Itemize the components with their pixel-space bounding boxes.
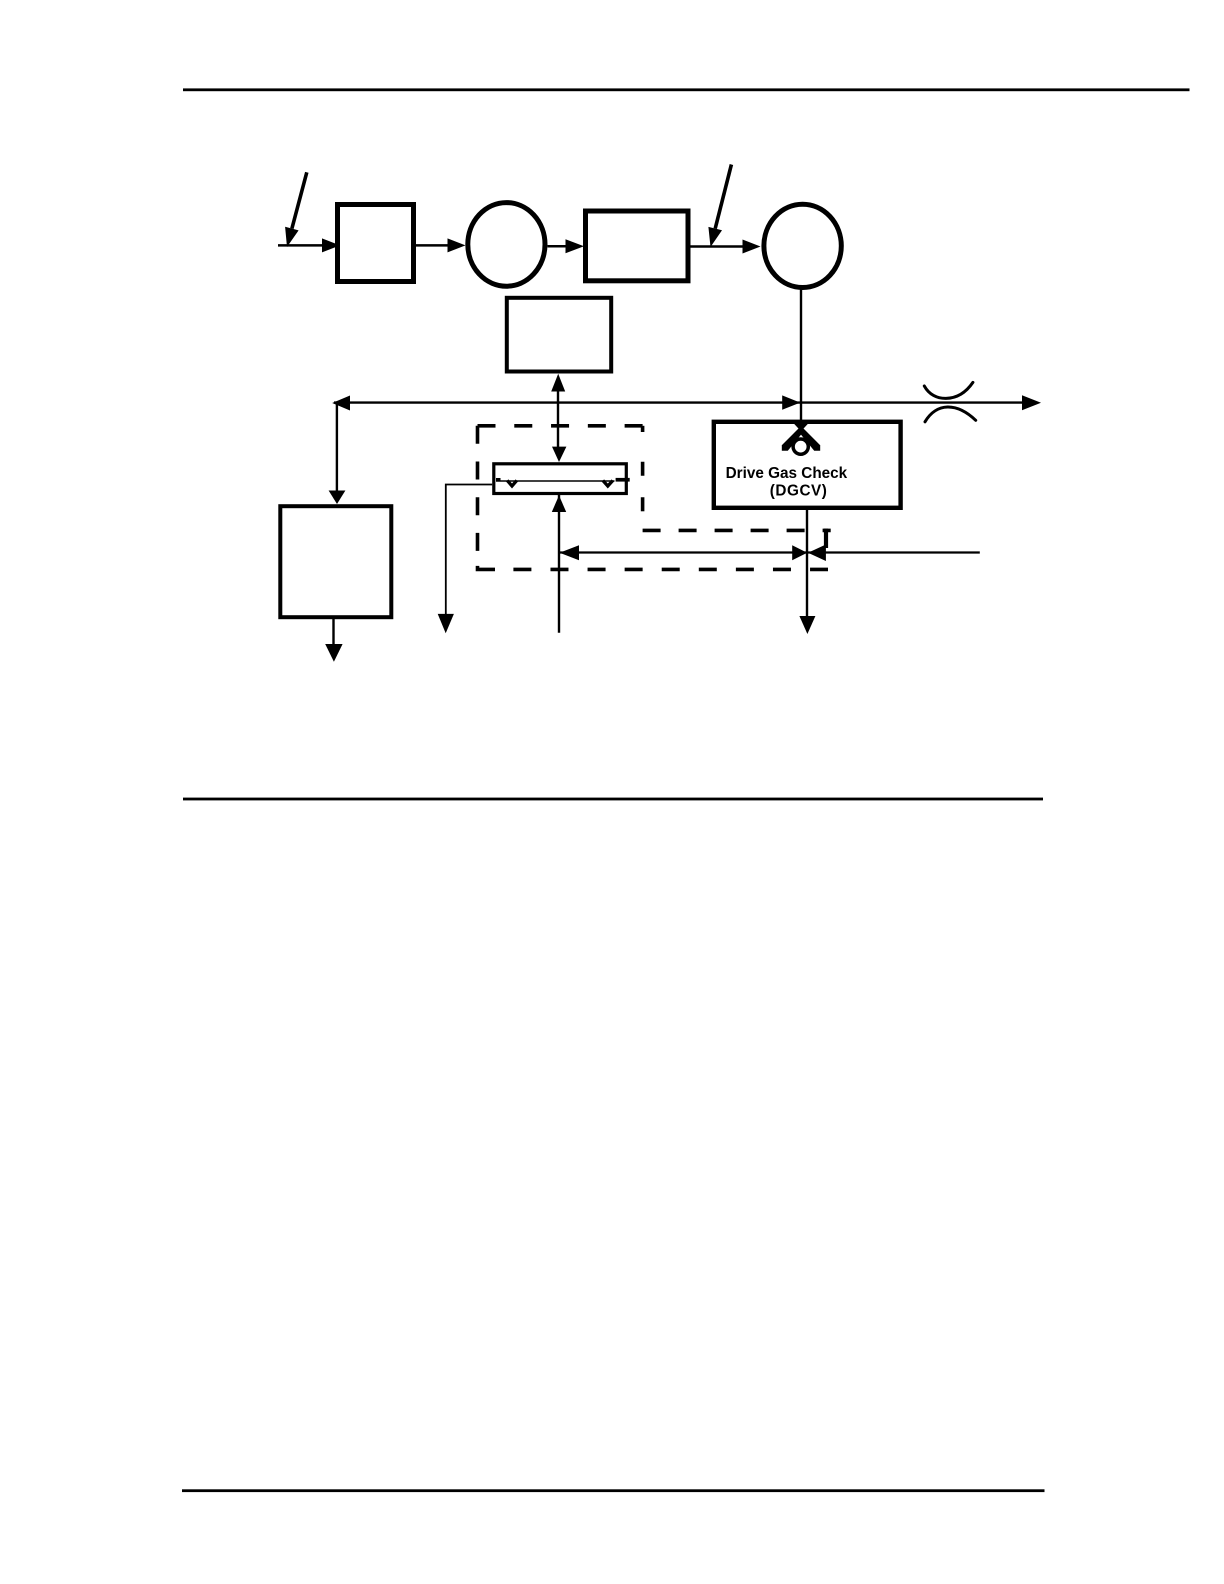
- wire: tank outlet arrow: [325, 619, 342, 662]
- left terminal stub: [496, 478, 501, 482]
- wire: feed line into block B1: [278, 238, 340, 252]
- arrowhead: manifold flow at DGCV junction: [782, 395, 800, 409]
- dashed top edge: [478, 424, 643, 428]
- dashed signal line to valve: [643, 529, 831, 533]
- ball check valve symbol inside DGCV box: [782, 424, 820, 455]
- right contact hook: [603, 481, 613, 487]
- circle C1 (rotating equipment): [468, 203, 545, 287]
- wire: riser from C2 down to DGCV: [800, 289, 802, 421]
- footer rule: [182, 1489, 1045, 1492]
- wire: main distribution manifold line: [334, 401, 1023, 403]
- left contact hook: [507, 480, 517, 486]
- dashed bottom-left corner piece: [478, 566, 496, 570]
- block B1 (square process block): [338, 205, 414, 282]
- wire: B1 to circle C1: [416, 238, 466, 252]
- svg-text:Drive Gas Check: Drive Gas Check: [726, 465, 848, 482]
- line break symbol on manifold: [924, 382, 975, 421]
- dashed enclosure (control boundary): [478, 426, 831, 570]
- arrowhead: manifold right end: [1022, 395, 1041, 410]
- inlet arrow 1 (diagonal supply arrow): [285, 172, 307, 247]
- wire: C1 to block B2: [548, 239, 585, 253]
- wire: sense line from igniter, left and down: [438, 485, 493, 634]
- wire: branch B3 to igniter (double-headed): [551, 374, 566, 462]
- dashed connector down to valve: [824, 529, 828, 548]
- circle C2 (rotating equipment): [764, 204, 841, 287]
- wire: vent line (horizontal, into firing line): [560, 545, 980, 560]
- figure bottom rule: [183, 798, 1043, 801]
- igniter housing (small rectangle): [494, 464, 627, 494]
- dashed left edge: [476, 426, 480, 552]
- wire: firing line down from igniter: [558, 495, 560, 633]
- arrowhead: up into igniter bottom: [552, 495, 566, 512]
- arrowhead: manifold left end: [332, 396, 350, 411]
- wire: DGCV outlet down: [799, 510, 815, 634]
- block B2 (rectangular process block): [586, 211, 689, 281]
- wire: B2 to circle C2: [691, 240, 761, 254]
- tank block (left square): [280, 506, 391, 617]
- block B3 (control block above manifold): [507, 298, 611, 372]
- dashed bottom edge: [513, 568, 828, 572]
- dashed right edge: [641, 462, 645, 531]
- svg-text:(DGCV): (DGCV): [770, 483, 828, 500]
- wire: drop from manifold to tank block: [329, 403, 346, 504]
- dashed right edge corner stub: [641, 426, 645, 432]
- right terminal stub: [616, 478, 630, 482]
- DGCV box: [714, 422, 901, 508]
- header rule: [183, 88, 1190, 91]
- inlet arrow 2 (diagonal supply arrow): [708, 165, 731, 248]
- bridgewire line: [496, 480, 615, 482]
- bowtie valve on vent line: [792, 545, 826, 562]
